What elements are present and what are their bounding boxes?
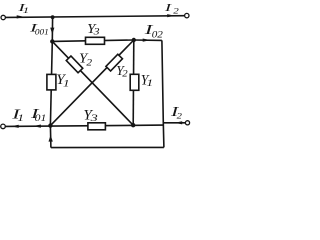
svg-text:1: 1 [63, 80, 70, 89]
admittance Y3 top box [86, 37, 105, 44]
current arrow I01 (left) [33, 125, 41, 128]
current arrow I1 bottom (left) [11, 125, 19, 128]
svg-text:001: 001 [35, 27, 49, 36]
wire diagonal A to D [52, 41, 133, 125]
wire diagonal C to B [50, 40, 133, 126]
node B [132, 38, 136, 42]
svg-text:1: 1 [17, 114, 24, 123]
wire bottom rail 1' to right rail [5, 125, 163, 126]
wire drop from top rail to node A [51, 17, 53, 41]
svg-text:2: 2 [86, 58, 93, 68]
svg-text:3: 3 [92, 27, 99, 38]
terminal 1 top-left [1, 15, 5, 19]
current arrow up on C drop [49, 135, 53, 142]
wire top rail 1 to 2 [6, 16, 185, 18]
wire B to right rail [134, 39, 162, 41]
node C [48, 123, 52, 127]
node A [50, 39, 54, 43]
current arrow I2 right (left) [175, 121, 183, 124]
svg-text:2: 2 [173, 6, 179, 15]
svg-text:1: 1 [23, 6, 29, 15]
wire top branch A to B [52, 40, 134, 41]
svg-text:I: I [164, 2, 173, 14]
svg-text:3: 3 [89, 113, 97, 124]
wire drop from C to return [49, 126, 52, 148]
admittance Y2 right diagonal box [106, 54, 123, 71]
svg-text:02: 02 [152, 30, 163, 40]
svg-text:01: 01 [35, 114, 47, 123]
wire right rail [162, 40, 164, 147]
terminal 2' mid-right [185, 121, 189, 125]
junction node on top rail [51, 15, 55, 19]
svg-text:1: 1 [146, 79, 153, 88]
terminal 1' bottom-left [1, 124, 6, 129]
current arrow I001 (down) [50, 28, 54, 35]
admittance Y2 left diagonal box [66, 56, 82, 73]
admittance Y1 left box [47, 74, 56, 90]
svg-text:2: 2 [122, 69, 127, 79]
current arrow I2 top (right) [167, 14, 175, 17]
wire left branch A to C [50, 41, 52, 125]
current arrow I1 top (right) [17, 15, 25, 18]
node D [131, 123, 135, 127]
terminal 2 top-right [185, 13, 189, 17]
admittance Y1 right box [130, 74, 139, 90]
svg-text:2: 2 [177, 111, 183, 121]
wire output tap to terminal 2' [163, 122, 185, 124]
wire right branch B to D [132, 40, 135, 125]
admittance Y3 bottom box [88, 123, 106, 130]
wire bottom return [51, 146, 164, 148]
current arrow I02 (right) [143, 39, 151, 42]
